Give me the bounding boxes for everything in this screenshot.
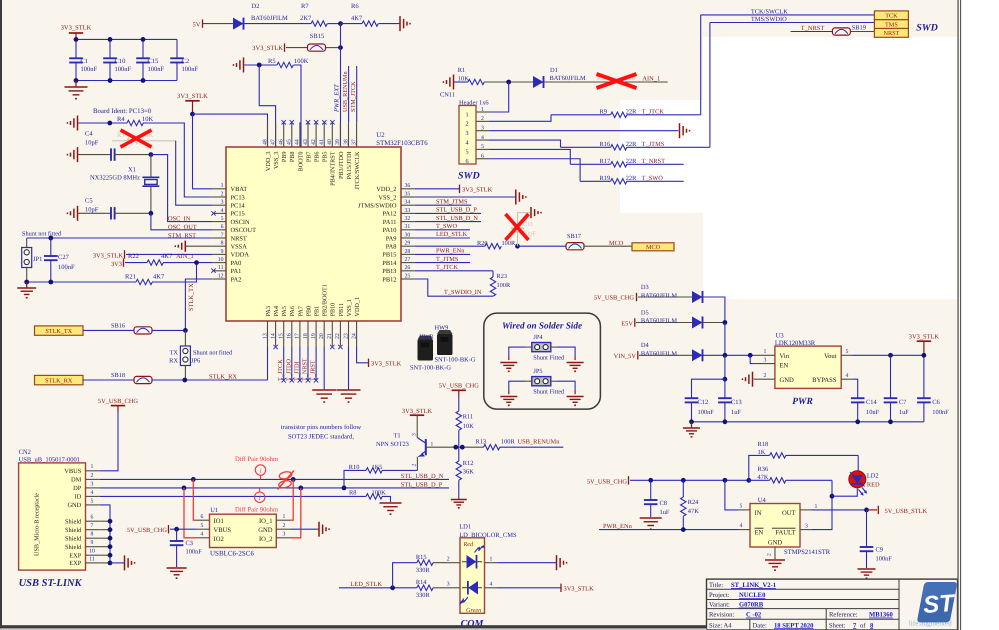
- U2 pin 2 PC13: [213, 191, 245, 201]
- svg-text:PB14: PB14: [382, 260, 397, 267]
- sheet border right: [957, 0, 958, 630]
- power port 5V_USB_STLK: [867, 506, 927, 515]
- resistor R11 10K: [456, 411, 474, 447]
- svg-text:R21: R21: [125, 274, 136, 281]
- hardware HW9 SNT-100-BK-G: [435, 324, 476, 363]
- wire VBUS: [100, 412, 118, 471]
- svg-text:VBAT: VBAT: [231, 186, 248, 193]
- svg-text:IO2: IO2: [214, 536, 224, 543]
- wire BYPASS to C14: [853, 379, 858, 398]
- svg-text:C7: C7: [899, 399, 907, 406]
- svg-text:FAULT: FAULT: [775, 529, 795, 536]
- U2 pin 47 VSS_3 (top): [270, 122, 280, 169]
- svg-text:C13: C13: [731, 399, 742, 406]
- resistor R15 330R: [416, 554, 452, 574]
- led LD1 LD_BICOLOR_CMS: [459, 524, 517, 614]
- svg-text:3: 3: [412, 433, 418, 436]
- CN2 pin 1 VBUS: [64, 464, 100, 475]
- svg-text:SNT-100-BK-G: SNT-100-BK-G: [435, 357, 476, 364]
- svg-text:2: 2: [91, 473, 94, 479]
- diode D1 BAT60JFILM: [533, 67, 586, 88]
- not-fitted X over C11: [506, 214, 529, 240]
- wire R22 to PA0 pin10: [163, 262, 213, 264]
- ground (U3 GND): [742, 372, 753, 387]
- ground (R5 node): [233, 58, 244, 73]
- LD1 pin1: [485, 556, 498, 562]
- wire LED_STLK row: [339, 587, 417, 589]
- junction AIN_1: [194, 260, 199, 265]
- svg-text:DM: DM: [71, 477, 82, 484]
- svg-text:3: 3: [221, 200, 224, 206]
- U2 pin 12 PA2: [213, 273, 241, 283]
- wire R6 to ground: [379, 23, 400, 25]
- svg-text:Shunt Fitted: Shunt Fitted: [533, 354, 565, 361]
- net PWR_ENn row: [599, 523, 738, 530]
- svg-text:STL_USB_D_N: STL_USB_D_N: [401, 473, 444, 480]
- U4 pin4 EN: [738, 523, 750, 530]
- junction LD2/FAULT: [830, 494, 835, 499]
- ground (R12): [451, 500, 467, 509]
- svg-text:HW9: HW9: [435, 324, 449, 331]
- U2 pin 21 PB10 (bottom): [327, 303, 337, 346]
- svg-text:PA5: PA5: [281, 306, 288, 316]
- svg-text:4: 4: [740, 523, 743, 529]
- ground (C8): [640, 518, 662, 530]
- crystal X1 NX3225GD 8MHz: [90, 155, 159, 214]
- svg-text:T_JTDI: T_JTDI: [293, 361, 300, 381]
- hardware HW8 SNT-100-BK-G: [410, 333, 451, 371]
- svg-text:Variant:: Variant:: [709, 602, 730, 609]
- svg-text:LED_STLK: LED_STLK: [436, 231, 468, 238]
- wire T_JTMS vertical to TMS: [709, 23, 711, 148]
- svg-text:2: 2: [447, 556, 450, 562]
- U2 pin 19 PB1 (bottom): [311, 306, 321, 346]
- svg-text:22R: 22R: [626, 158, 637, 165]
- led LD2 RED: [849, 455, 880, 495]
- svg-text:PB7: PB7: [305, 152, 312, 163]
- solder bridge SB18: [111, 372, 152, 384]
- svg-text:5V_USB_CHG: 5V_USB_CHG: [98, 398, 139, 405]
- svg-text:3V3_STLK: 3V3_STLK: [462, 187, 493, 194]
- wire node to R6: [341, 23, 363, 25]
- svg-text:D4: D4: [641, 342, 650, 349]
- svg-text:CN11: CN11: [440, 91, 455, 98]
- capacitor C7 1uF: [884, 355, 910, 422]
- port NRST: [874, 29, 908, 38]
- solder bridge SB16: [111, 322, 152, 334]
- junction STLK_TX: [183, 328, 188, 333]
- svg-text:STMPS2141STR: STMPS2141STR: [784, 549, 831, 556]
- junction DM/IO1: [191, 477, 196, 482]
- ground (decoupling bank): [65, 81, 88, 100]
- svg-text:OSC_OUT: OSC_OUT: [168, 224, 197, 231]
- svg-text:11: 11: [218, 265, 224, 271]
- svg-text:PB1: PB1: [314, 306, 321, 317]
- wire EN jog: [750, 355, 754, 363]
- svg-text:STL_USB_D_P: STL_USB_D_P: [401, 481, 443, 488]
- wire SB19 to NRST box: [850, 31, 874, 33]
- wire caps node to C12: [692, 379, 725, 398]
- CN2 pin 8 Shield: [65, 532, 100, 543]
- wire port to SB18: [83, 379, 134, 381]
- wire SB18 to PA3: [152, 379, 268, 381]
- svg-text:BYPASS: BYPASS: [812, 377, 837, 384]
- resistor R5 100K: [268, 58, 309, 67]
- svg-text:SWD: SWD: [916, 22, 938, 33]
- svg-text:i: i: [259, 494, 261, 502]
- U2 pin 48 VDD_3 (top): [262, 122, 272, 171]
- jumper JP1: [22, 238, 43, 282]
- svg-text:T_NRST: T_NRST: [801, 25, 825, 32]
- CN2 pin 11 EXP: [69, 556, 100, 567]
- svg-text:X1: X1: [128, 167, 136, 174]
- svg-text:Board Ident: PC13=0: Board Ident: PC13=0: [93, 108, 152, 115]
- svg-text:PA7: PA7: [297, 306, 304, 316]
- svg-text:7: 7: [221, 232, 224, 238]
- net T_NRST stub (pin 18): [302, 346, 311, 383]
- svg-text:18 SEPT 2020: 18 SEPT 2020: [774, 622, 814, 629]
- svg-text:C9: C9: [876, 547, 883, 554]
- svg-text:PB5: PB5: [322, 152, 329, 163]
- svg-text:T_JTCK: T_JTCK: [277, 359, 284, 381]
- wire pin4 to R16: [489, 140, 561, 147]
- CN2 pin 2 DM: [71, 473, 100, 484]
- svg-text:PWR: PWR: [792, 397, 813, 407]
- svg-text:NPN SOT23: NPN SOT23: [376, 441, 409, 448]
- no-connect pin22: [338, 345, 342, 349]
- svg-text:T_NRST: T_NRST: [302, 358, 309, 381]
- svg-text:BOOT0: BOOT0: [297, 152, 304, 172]
- not-fitted X over R2: [597, 74, 637, 88]
- svg-text:30: 30: [405, 232, 411, 238]
- svg-text:3V3_STLK: 3V3_STLK: [402, 408, 433, 415]
- svg-text:T_JTCK: T_JTCK: [642, 109, 665, 116]
- capacitor C13 1uF: [718, 379, 742, 422]
- svg-text:100K: 100K: [372, 490, 387, 497]
- junction C4/X1: [149, 152, 154, 157]
- resistor R19 22R: [580, 175, 684, 184]
- svg-text:PWR_EXT: PWR_EXT: [334, 84, 341, 113]
- svg-text:3V3: 3V3: [111, 261, 122, 268]
- wire 3V3 to VDD_3 pin48: [193, 114, 268, 147]
- U2 pin 15 PA5 (bottom): [279, 306, 289, 346]
- svg-text:MCO: MCO: [609, 240, 624, 247]
- svg-text:6: 6: [221, 224, 224, 230]
- svg-text:1uF: 1uF: [660, 509, 670, 516]
- svg-text:STM_JTCK: STM_JTCK: [350, 81, 357, 112]
- wire Vout rail: [853, 354, 924, 356]
- U3 pin2 GND: [754, 373, 775, 379]
- svg-text:9: 9: [91, 540, 94, 546]
- diff pair marker lower: [235, 488, 279, 514]
- junction: [141, 37, 146, 42]
- svg-text:Title:: Title:: [709, 582, 723, 589]
- svg-text:R24: R24: [688, 499, 699, 506]
- junction SB15/PWR_EXT: [338, 45, 343, 50]
- diff pair twist symbol: [278, 471, 295, 490]
- net T_JTCK: [415, 264, 493, 271]
- port STLK_RX: [35, 375, 84, 384]
- wire PA2 to STLK_TX: [185, 279, 212, 330]
- capacitor C11 20pF not fitted (ghost): [511, 213, 536, 247]
- U2 pin 25 PB12: [382, 273, 415, 283]
- svg-text:EN: EN: [755, 529, 764, 536]
- CN11 pin 5: [465, 144, 489, 156]
- wire IO2 red: [184, 488, 196, 538]
- junction C12/rail: [689, 419, 694, 424]
- junction R24/EN: [681, 527, 686, 532]
- svg-text:Shield: Shield: [65, 527, 82, 534]
- svg-text:C8: C8: [660, 500, 667, 507]
- U3 pin1 Vin: [754, 349, 775, 355]
- svg-text:22R: 22R: [626, 175, 637, 182]
- svg-text:IO1: IO1: [214, 518, 224, 525]
- wire VSS_1 to gnd: [348, 346, 350, 390]
- regulator U3 LDK120M33R: [775, 333, 841, 389]
- resistor R6 4K7: [351, 3, 378, 27]
- svg-text:E5V: E5V: [621, 320, 633, 327]
- svg-text:PA2: PA2: [231, 276, 242, 283]
- svg-text:26: 26: [405, 265, 411, 271]
- shield bus: [100, 505, 124, 565]
- junction DP/IO2: [182, 486, 187, 491]
- svg-text:PB3/JTDO: PB3/JTDO: [338, 151, 345, 179]
- junction: [24, 280, 29, 285]
- svg-text:330R: 330R: [416, 567, 431, 574]
- no-connect PC15: [211, 211, 215, 215]
- svg-text:OSCIN: OSCIN: [231, 219, 251, 226]
- junction R20/C11: [515, 244, 520, 249]
- svg-text:100nF: 100nF: [932, 409, 949, 416]
- wire gnd to R5: [244, 64, 278, 66]
- power port 3V3_STLK (LD1): [497, 584, 594, 593]
- svg-text:PB4/JNTRST: PB4/JNTRST: [330, 151, 337, 186]
- svg-text:100nF: 100nF: [81, 66, 98, 73]
- CN11 pin 4: [465, 135, 489, 147]
- wire SB16 to JP6: [152, 329, 185, 331]
- wire IO1 red: [193, 479, 195, 520]
- svg-text:330R: 330R: [416, 592, 431, 599]
- svg-text:Revision:: Revision:: [709, 612, 734, 619]
- ground (JP4 right): [567, 363, 584, 373]
- capacitor C14 10nF: [851, 398, 880, 422]
- ground (VSS_1): [337, 390, 361, 403]
- svg-text:D2: D2: [252, 3, 260, 10]
- svg-text:100nF: 100nF: [58, 264, 75, 271]
- ic U4 STMPS2141STR: [750, 497, 831, 556]
- resistor R17 22R: [570, 158, 683, 167]
- solder bridge SB17: [566, 233, 584, 250]
- wire 3V3 to VBAT pin1: [193, 114, 213, 189]
- wire D3 to rail: [703, 297, 725, 323]
- svg-text:R4: R4: [117, 116, 125, 123]
- svg-text:JTMS/SWDIO: JTMS/SWDIO: [358, 203, 397, 210]
- svg-text:5: 5: [221, 216, 224, 222]
- svg-text:29: 29: [405, 241, 411, 247]
- junction R10/DP: [342, 486, 347, 491]
- svg-text:10K: 10K: [463, 423, 474, 430]
- wire OSC_OUT to pin6: [151, 213, 213, 230]
- power port 5V_USB_CHG (U4): [587, 476, 749, 485]
- svg-text:34: 34: [405, 200, 411, 206]
- svg-text:6: 6: [91, 515, 94, 521]
- svg-text:STLK_TX: STLK_TX: [188, 283, 195, 311]
- diff pair marker upper: [235, 456, 279, 480]
- capacitor C8 1uF: [644, 480, 670, 517]
- wire PB2/BOOT1 to gnd: [323, 346, 325, 390]
- svg-text:VBUS: VBUS: [64, 468, 81, 475]
- ground (U1): [319, 522, 330, 537]
- ground (C3): [167, 568, 187, 579]
- svg-text:3V3_STLK: 3V3_STLK: [564, 586, 595, 593]
- svg-text:VSS_3: VSS_3: [273, 152, 280, 170]
- ground (LD1): [557, 555, 568, 570]
- svg-text:OSC_IN: OSC_IN: [168, 215, 191, 222]
- ground (R6): [400, 16, 411, 31]
- svg-text:47: 47: [270, 139, 276, 145]
- junction C7: [888, 353, 893, 358]
- junction: [723, 419, 728, 424]
- svg-text:100nF: 100nF: [876, 556, 893, 563]
- svg-text:Size: A4: Size: A4: [709, 622, 732, 629]
- title block: [707, 579, 958, 630]
- svg-text:Wired on Solder Side: Wired on Solder Side: [502, 321, 582, 331]
- ground (JP5 right): [567, 397, 584, 407]
- svg-text:PA8: PA8: [386, 244, 397, 251]
- net PWR_ENn: [415, 248, 470, 255]
- svg-text:1: 1: [91, 464, 94, 470]
- junction C6/3V3: [922, 353, 927, 358]
- svg-text:PB15: PB15: [382, 252, 396, 259]
- ground (C4): [67, 147, 78, 162]
- wire 3V3 to SB15: [286, 47, 308, 49]
- junction C5/X1: [149, 211, 154, 216]
- wire STM_JTCK vertical pin37: [356, 66, 358, 122]
- svg-text:3V3_STLK: 3V3_STLK: [93, 252, 124, 259]
- net T_SWO: [415, 223, 470, 230]
- svg-text:IO_2: IO_2: [259, 536, 273, 543]
- resistor R7 2K7: [300, 3, 327, 27]
- svg-text:48: 48: [262, 139, 268, 145]
- svg-text:ID: ID: [75, 494, 82, 501]
- svg-text:17: 17: [295, 333, 301, 339]
- svg-text:2: 2: [767, 553, 773, 556]
- CN11 pin 6: [465, 154, 489, 166]
- wire pin2 to R9: [489, 115, 551, 122]
- svg-text:STLK_RX: STLK_RX: [209, 373, 237, 380]
- U2 pin 37 JTCK/SWCLK (top): [351, 122, 361, 189]
- svg-text:PA9: PA9: [386, 235, 397, 242]
- svg-text:PA12: PA12: [383, 211, 397, 218]
- wire Vin node down to caps: [724, 355, 726, 379]
- svg-text:R10: R10: [349, 464, 360, 471]
- connector CN11 Header 1x6: [459, 99, 489, 164]
- svg-text:R16: R16: [600, 141, 611, 148]
- svg-text:Red: Red: [463, 541, 475, 548]
- svg-text:43: 43: [303, 139, 309, 145]
- diode D3 BAT60JFILM: [641, 284, 703, 303]
- sheet border bottom: [0, 625, 707, 628]
- power flag 5V_USB_CHG (VBUS): [98, 398, 139, 412]
- port TCK: [874, 11, 908, 20]
- svg-text:STM_JTMS: STM_JTMS: [436, 198, 468, 205]
- note box Wired on Solder Side: [484, 313, 601, 409]
- svg-text:BAT60JFILM: BAT60JFILM: [251, 15, 288, 22]
- svg-text:D1: D1: [550, 67, 558, 74]
- svg-text:1: 1: [465, 111, 468, 118]
- svg-text:PB6: PB6: [314, 152, 321, 163]
- resistor R3 10K not fitted (ghost): [112, 132, 176, 144]
- svg-text:22R: 22R: [626, 108, 637, 115]
- wire OUT row: [812, 509, 867, 511]
- svg-text:PWR_ENn: PWR_ENn: [436, 248, 465, 255]
- capacitor C3 100nF: [170, 529, 202, 567]
- svg-text:SWD: SWD: [458, 171, 480, 182]
- U2 pin 26 PB13: [382, 265, 415, 275]
- CN2 pin 4 ID: [75, 490, 100, 501]
- svg-text:R9: R9: [600, 108, 607, 115]
- U2 pin 42 PB6 (top): [311, 122, 321, 162]
- svg-text:PB10: PB10: [330, 303, 337, 317]
- sheet border left: [0, 0, 2, 630]
- svg-text:PA11: PA11: [383, 219, 397, 226]
- port TMS: [874, 20, 908, 29]
- svg-text:20: 20: [319, 333, 325, 339]
- svg-text:100nF: 100nF: [186, 549, 203, 556]
- svg-text:2K7: 2K7: [300, 15, 312, 22]
- CN2 pin 5 GND: [67, 498, 99, 509]
- no-connect pin21: [330, 345, 334, 349]
- resistor R16 22R: [561, 141, 710, 150]
- svg-text:LD1: LD1: [459, 524, 471, 531]
- svg-text:GND: GND: [258, 527, 273, 534]
- wire to R15: [393, 563, 417, 588]
- capacitor C4 10pF: [78, 131, 151, 161]
- solder bridge SB15: [308, 33, 326, 51]
- capacitor C12 100nF: [685, 398, 715, 422]
- U2 pin 43 PB7 (top): [303, 122, 313, 162]
- junction C3: [174, 527, 179, 532]
- junction 3V3 node: [190, 112, 195, 117]
- svg-text:R14: R14: [416, 579, 427, 586]
- svg-text:IN: IN: [755, 510, 762, 517]
- wire IO_2 red: [290, 488, 301, 538]
- svg-text:5V_USB_CHG: 5V_USB_CHG: [127, 527, 168, 534]
- svg-text:LED_STLK: LED_STLK: [350, 581, 382, 588]
- power port 5V_USB_CHG (U1 VBUS): [127, 525, 196, 534]
- svg-text:1K: 1K: [758, 449, 766, 456]
- svg-text:5: 5: [740, 503, 743, 509]
- ground (C9): [858, 569, 876, 579]
- net T_JTDI stub (pin 17): [293, 346, 302, 383]
- wire pin5 to R17: [489, 149, 570, 164]
- svg-text:VDD_2: VDD_2: [376, 186, 396, 193]
- net STL_USB_D_N: [415, 215, 481, 222]
- svg-text:PC13: PC13: [231, 194, 245, 201]
- wire gnd rail (PWR): [692, 421, 924, 423]
- svg-text:life.augmented: life.augmented: [909, 620, 952, 628]
- wire DP row: [100, 487, 449, 489]
- U2 pin 9 VDDA: [213, 249, 250, 259]
- junction base/R11: [453, 445, 458, 450]
- svg-text:10nF: 10nF: [866, 409, 880, 416]
- diode D4 BAT60JFILM: [641, 342, 703, 361]
- svg-text:PA1: PA1: [231, 268, 242, 275]
- svg-text:37: 37: [351, 139, 357, 145]
- capacitor C9 100nF: [860, 510, 893, 568]
- ground (JP1/C27): [17, 282, 36, 299]
- svg-text:4: 4: [846, 373, 849, 379]
